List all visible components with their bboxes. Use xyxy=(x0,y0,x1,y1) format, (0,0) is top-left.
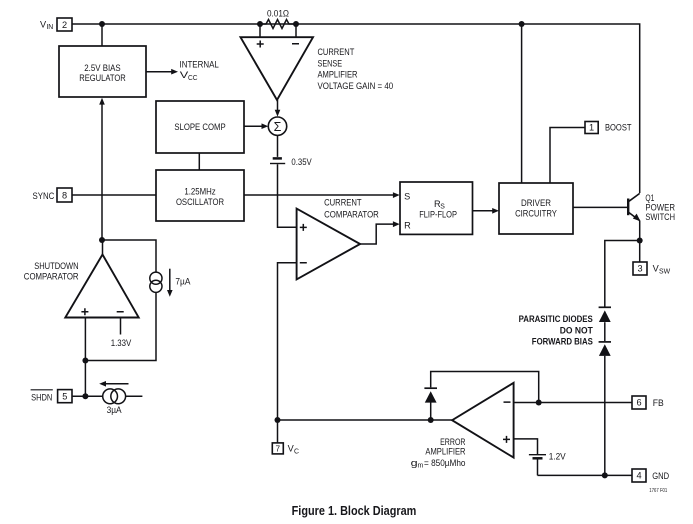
svg-text:OSCILLATOR: OSCILLATOR xyxy=(176,197,224,207)
svg-text:C: C xyxy=(294,448,299,455)
wire FB line error amp - to pin 6 xyxy=(514,402,632,404)
node 7uA return xyxy=(82,358,88,364)
pin 3 VSW xyxy=(633,262,671,275)
wire top rail down to driver circuitry xyxy=(521,24,523,183)
svg-text:POWER: POWER xyxy=(645,202,675,212)
svg-text:IN: IN xyxy=(46,24,53,31)
svg-text:SYNC: SYNC xyxy=(33,191,55,201)
node resistor left xyxy=(257,21,263,27)
svg-text:COMPARATOR: COMPARATOR xyxy=(324,210,379,220)
node VC xyxy=(275,417,281,423)
pin 1 BOOST xyxy=(585,122,632,134)
svg-text:CC: CC xyxy=(188,75,198,82)
current source 3uA xyxy=(99,381,128,415)
svg-text:7: 7 xyxy=(276,444,281,453)
wire SHDN pin to 3uA source xyxy=(72,395,103,397)
diode parasitic lower xyxy=(599,342,611,356)
node clamp on VC line xyxy=(428,417,434,423)
wire sense amp apex to summer xyxy=(277,100,279,111)
wire resistor right stub down to amp - xyxy=(295,24,297,37)
svg-text:DRIVER: DRIVER xyxy=(521,198,551,208)
error amplifier label xyxy=(411,437,466,470)
svg-text:SHDN: SHDN xyxy=(31,393,52,403)
svg-text:FORWARD BIAS: FORWARD BIAS xyxy=(532,337,593,347)
wire SYNC pin to oscillator xyxy=(72,194,156,196)
pin 5 SHDN xyxy=(31,390,72,403)
svg-text:BOOST: BOOST xyxy=(605,123,632,133)
pin 4 GND xyxy=(632,469,669,482)
battery 1.2V xyxy=(529,455,546,459)
svg-text:2.5V BIAS: 2.5V BIAS xyxy=(84,63,120,73)
svg-text:1: 1 xyxy=(589,123,594,133)
current sense amplifier label xyxy=(318,47,394,91)
wire VSW node left and down to parasitic diodes xyxy=(605,241,640,307)
op-amp shutdown comparator xyxy=(65,255,138,318)
wire shutdown comparator output up to regulator xyxy=(101,103,103,240)
svg-text:Q1: Q1 xyxy=(645,193,654,203)
svg-text:6: 6 xyxy=(636,398,641,408)
wire slope comp to oscillator xyxy=(198,153,200,170)
wire summer to battery 0.35V xyxy=(277,135,279,157)
svg-text:PARASITIC DIODES: PARASITIC DIODES xyxy=(519,314,593,324)
svg-text:CURRENT: CURRENT xyxy=(324,198,362,208)
svg-text:REGULATOR: REGULATOR xyxy=(79,73,126,83)
wire resistor left stub down to amp + xyxy=(259,24,261,37)
svg-text:FB: FB xyxy=(653,398,664,408)
wire error amp + input to battery 1.2V xyxy=(514,439,538,454)
Q1 label xyxy=(645,193,675,222)
arrow comparator into flip-flop R xyxy=(393,221,400,227)
wire lower diode down to GND node xyxy=(604,356,606,476)
node resistor right xyxy=(293,21,299,27)
diode clamp at error amp xyxy=(424,388,437,402)
pin 6 FB xyxy=(632,396,664,409)
wire 3uA source right stub xyxy=(126,395,143,397)
wire battery 0.35V to comparator + input xyxy=(278,164,297,227)
wire node to 7uA current source xyxy=(102,240,156,272)
wire driver to BOOST pin xyxy=(550,128,585,184)
resistor R 0.01 ohm xyxy=(260,20,296,29)
wire comparator output to flip-flop R xyxy=(360,224,394,244)
svg-text:CIRCUITRY: CIRCUITRY xyxy=(515,209,557,219)
wire shutdown + input down to SHDN line xyxy=(84,318,86,397)
svg-text:INTERNAL: INTERNAL xyxy=(180,60,219,70)
wire clamp diode to VC line xyxy=(430,402,432,420)
svg-text:2: 2 xyxy=(62,20,67,30)
svg-text:SW: SW xyxy=(659,268,671,275)
wire battery 1.2V to GND line xyxy=(537,459,539,476)
wire comparator - input down to VC node xyxy=(278,263,297,420)
wire Q1 emitter to VSW node xyxy=(639,221,641,241)
wire oscillator to flip-flop S xyxy=(244,194,395,196)
node shutdown output xyxy=(99,237,105,243)
shutdown comparator label xyxy=(24,261,79,281)
diode parasitic upper xyxy=(599,307,611,322)
summer sigma node xyxy=(268,117,286,135)
svg-text:1767 F01: 1767 F01 xyxy=(649,488,667,494)
wire GND line to pin 4 xyxy=(538,474,633,476)
parasitic diodes warning label xyxy=(519,314,594,347)
block driver circuitry xyxy=(499,183,573,234)
wire clamp diode loop xyxy=(431,372,539,403)
node VSW emitter xyxy=(637,238,643,244)
internal VCC label xyxy=(180,60,219,83)
wire VSW node to pin 3 xyxy=(639,241,641,263)
block 2.5V bias regulator xyxy=(59,46,146,97)
svg-text:SWITCH: SWITCH xyxy=(645,212,675,222)
svg-text:SHUTDOWN: SHUTDOWN xyxy=(34,261,78,271)
svg-text:7µA: 7µA xyxy=(175,276,191,286)
wire top rail VIN to collector drop xyxy=(72,24,640,193)
op-amp current sense amplifier xyxy=(241,37,314,100)
arrow flip-flop into driver xyxy=(492,208,499,214)
wire 7uA source down and left to + input line xyxy=(85,292,156,360)
svg-text:8: 8 xyxy=(62,191,67,201)
svg-text:m: m xyxy=(418,462,424,469)
node VIN top rail to regulator xyxy=(99,21,105,27)
svg-text:VOLTAGE GAIN = 40: VOLTAGE GAIN = 40 xyxy=(318,81,394,91)
svg-text:SENSE: SENSE xyxy=(318,58,343,68)
arrow oscillator into flip-flop S xyxy=(393,192,400,198)
svg-text:ERROR: ERROR xyxy=(440,437,466,447)
wire driver output to Q1 base xyxy=(573,206,627,208)
wire VIN junction down to bias regulator xyxy=(101,24,103,46)
transistor Q1 power switch xyxy=(628,193,640,221)
svg-text:AMPLIFIER: AMPLIFIER xyxy=(425,446,465,456)
battery 0.35V xyxy=(270,158,285,163)
svg-text:3µA: 3µA xyxy=(107,405,123,415)
arrow into regulator bottom xyxy=(99,98,105,105)
svg-text:AMPLIFIER: AMPLIFIER xyxy=(318,70,358,80)
svg-text:0.35V: 0.35V xyxy=(291,157,312,167)
arrow regulator to internal VCC xyxy=(146,69,178,75)
wire flip-flop output to driver xyxy=(473,210,494,212)
arrow slope comp into summer xyxy=(244,123,268,129)
svg-text:1.2V: 1.2V xyxy=(549,451,567,461)
node top rail to driver xyxy=(519,21,525,27)
svg-text:1.25MHz: 1.25MHz xyxy=(184,187,216,197)
svg-text:S: S xyxy=(404,192,410,202)
wire shutdown - input stub to 1.33V xyxy=(120,318,122,335)
arrow sense amp into summer xyxy=(275,110,281,117)
svg-text:COMPARATOR: COMPARATOR xyxy=(24,272,79,282)
svg-text:DO NOT: DO NOT xyxy=(560,325,593,335)
pin 7 VC xyxy=(272,443,299,455)
pin 8 SYNC xyxy=(33,188,73,202)
svg-text:Σ: Σ xyxy=(274,120,282,134)
svg-text:1.33V: 1.33V xyxy=(111,338,132,348)
svg-text:5: 5 xyxy=(62,392,67,402)
svg-text:Figure 1. Block Diagram: Figure 1. Block Diagram xyxy=(292,504,417,518)
wire VC line to error amp apex xyxy=(278,419,453,421)
svg-text:4: 4 xyxy=(636,471,641,481)
svg-text:GND: GND xyxy=(652,471,669,481)
op-amp error amplifier xyxy=(452,383,513,458)
current source 7uA xyxy=(150,269,191,297)
node GND line xyxy=(602,472,608,478)
wire VC node to pin 7 xyxy=(277,420,279,443)
svg-text:CURRENT: CURRENT xyxy=(318,47,355,57)
wire shutdown comparator apex to node xyxy=(102,240,104,255)
current comparator label xyxy=(324,198,379,220)
node FB at error amp xyxy=(536,400,542,406)
pin 2 VIN xyxy=(40,18,72,31)
svg-text:0.01Ω: 0.01Ω xyxy=(267,9,289,19)
svg-text:R: R xyxy=(404,221,411,231)
node SHDN line xyxy=(82,393,88,399)
svg-text:3: 3 xyxy=(637,264,642,274)
svg-text:= 850µMho: = 850µMho xyxy=(424,458,466,468)
svg-text:FLIP-FLOP: FLIP-FLOP xyxy=(419,209,457,219)
wire between parasitic diodes xyxy=(604,322,606,341)
block 1.25MHz oscillator xyxy=(156,170,244,221)
op-amp current comparator xyxy=(297,209,361,280)
block RS flip-flop xyxy=(400,182,473,234)
block slope comp xyxy=(156,101,244,153)
svg-text:SLOPE COMP: SLOPE COMP xyxy=(174,122,225,132)
